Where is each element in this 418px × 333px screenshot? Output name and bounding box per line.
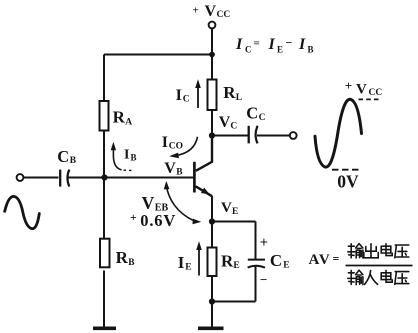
svg-text:V: V: [356, 82, 367, 98]
label CB: [57, 147, 77, 166]
svg-text:=: =: [254, 38, 260, 50]
svg-text:V: V: [221, 200, 232, 216]
label formula Ic = Ie - Ib: [235, 36, 314, 55]
numerator 输出电压: [348, 244, 409, 258]
wire VE node to CE branch: [212, 221, 256, 223]
svg-text:R: R: [221, 252, 234, 271]
svg-text:C: C: [183, 95, 190, 105]
svg-text:I: I: [176, 87, 182, 104]
transistor Q1 base bar: [193, 162, 196, 193]
wire input to Cb: [23, 177, 58, 179]
svg-text:C: C: [245, 45, 252, 55]
label VE: [221, 200, 238, 217]
svg-text:B: B: [308, 45, 314, 55]
svg-text:I: I: [298, 36, 306, 53]
svg-text:I: I: [235, 36, 243, 53]
capacitor CE: [248, 259, 265, 261]
label ICO: [162, 134, 183, 151]
svg-text:CC: CC: [369, 88, 383, 98]
arrow IE: [196, 241, 202, 275]
label AV =: [309, 252, 340, 269]
label +Vcc right: [345, 78, 383, 98]
svg-text:E: E: [283, 261, 289, 271]
arrow IB curved: [111, 142, 132, 171]
ground right: [198, 326, 224, 330]
svg-text:V: V: [164, 160, 176, 177]
wire CE to bottom corner: [255, 267, 257, 302]
fraction bar: [346, 265, 413, 267]
svg-text:B: B: [176, 167, 183, 177]
svg-text:CC: CC: [217, 10, 231, 20]
svg-text:+: +: [260, 235, 268, 251]
capacitor Cb: [59, 170, 61, 187]
svg-text:A: A: [125, 117, 132, 127]
input sine wave: [5, 196, 40, 228]
svg-text:B: B: [131, 153, 137, 163]
svg-text:V: V: [205, 3, 217, 20]
node dot VE: [209, 218, 215, 224]
wire emitter down to VE node: [211, 196, 213, 222]
svg-text:−: −: [260, 272, 267, 287]
label RE: [221, 252, 240, 272]
svg-text:+: +: [130, 212, 137, 224]
wire bottom corner to RE line: [212, 301, 256, 303]
svg-text:V: V: [142, 193, 155, 213]
wire Cb to base: [68, 177, 193, 179]
label +Vcc top: [193, 3, 231, 20]
svg-text:I: I: [162, 134, 168, 151]
transistor collector: [196, 137, 212, 171]
svg-text:E: E: [277, 45, 283, 55]
wire RA to base node: [103, 131, 105, 178]
svg-text:B: B: [128, 258, 135, 268]
wire left branch upper: [103, 55, 105, 102]
denominator 输入电压: [348, 270, 409, 284]
svg-text:C: C: [259, 113, 266, 123]
svg-text:B: B: [70, 156, 77, 166]
svg-text:I: I: [268, 36, 276, 53]
resistor RB: [100, 239, 110, 268]
wire Vc to Cc: [212, 135, 248, 137]
svg-text:=: =: [333, 252, 340, 266]
wire top horizontal: [104, 54, 212, 56]
arrow IC: [195, 79, 201, 108]
emitter arrowhead: [201, 188, 210, 195]
dashed line top (+Vcc level): [359, 98, 382, 100]
transistor emitter: [196, 186, 212, 196]
node dot base junction: [101, 174, 107, 180]
svg-text:+: +: [193, 5, 199, 17]
svg-text:AV: AV: [309, 252, 332, 268]
svg-text:R: R: [113, 108, 126, 127]
label IC: [176, 87, 190, 105]
Vcc terminal: [209, 22, 216, 29]
wire VE node to RE: [211, 222, 213, 248]
wire down to CE: [255, 222, 257, 260]
wire RB to ground: [103, 271, 105, 328]
wire RE to ground: [211, 276, 213, 327]
arrow ICO curved: [169, 137, 197, 159]
label VC: [219, 114, 238, 131]
dashed line bottom (0V level): [332, 169, 360, 171]
label RB: [116, 248, 136, 268]
wire Cc to output terminal: [257, 135, 290, 137]
wire base node to RB: [103, 178, 105, 240]
resistor RL: [208, 80, 217, 111]
label VEB: [142, 193, 169, 213]
node dot Vc: [209, 132, 215, 138]
arrow VEB arc (double headed): [164, 181, 202, 224]
ground left: [93, 326, 116, 330]
svg-text:E: E: [233, 261, 239, 271]
svg-text:L: L: [236, 93, 242, 103]
label RA: [113, 108, 133, 128]
node dot bottom: [209, 298, 215, 304]
svg-text:−: −: [286, 36, 293, 50]
input terminal: [17, 174, 24, 181]
output terminal: [290, 132, 297, 139]
wire Vcc down: [211, 28, 213, 79]
resistor RE: [208, 248, 217, 277]
svg-text:V: V: [219, 114, 231, 131]
svg-text:0V: 0V: [337, 172, 359, 192]
svg-text:C: C: [246, 104, 258, 123]
wire RL to Vc node: [211, 110, 213, 136]
svg-text:R: R: [116, 248, 129, 267]
svg-text:I: I: [178, 253, 185, 272]
resistor RA: [100, 101, 109, 131]
svg-text:C: C: [270, 251, 282, 270]
label +0.6V: [130, 211, 176, 230]
svg-text:R: R: [223, 83, 236, 102]
svg-text:+: +: [345, 78, 352, 93]
svg-text:I: I: [124, 148, 129, 163]
output sine wave: [315, 99, 362, 167]
svg-text:CO: CO: [169, 141, 183, 151]
label IB: [124, 148, 137, 163]
capacitor Cc: [248, 126, 250, 144]
svg-text:C: C: [57, 147, 69, 166]
label CC cap: [246, 104, 265, 123]
svg-text:E: E: [185, 262, 191, 272]
label IE: [178, 253, 192, 273]
label RL: [223, 83, 242, 103]
label CE cap: [270, 251, 290, 271]
svg-text:E: E: [232, 207, 238, 217]
svg-text:0.6V: 0.6V: [140, 211, 176, 230]
label VB: [164, 160, 183, 178]
node dot top: [209, 52, 215, 58]
svg-text:C: C: [230, 121, 237, 131]
